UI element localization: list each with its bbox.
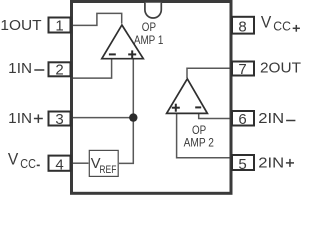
svg-text:OP: OP <box>142 22 156 34</box>
svg-text:OP: OP <box>192 125 206 137</box>
svg-text:1IN: 1IN <box>8 60 32 77</box>
svg-text:AMP 2: AMP 2 <box>184 137 214 149</box>
svg-text:V: V <box>8 150 18 168</box>
svg-text:REF: REF <box>99 164 116 176</box>
svg-text:8: 8 <box>238 18 246 35</box>
svg-text:2IN: 2IN <box>258 110 284 127</box>
svg-text:7: 7 <box>238 61 246 78</box>
svg-text:1: 1 <box>55 18 63 35</box>
svg-text:2IN: 2IN <box>258 154 284 171</box>
svg-text:2OUT: 2OUT <box>260 59 301 76</box>
svg-text:1IN: 1IN <box>8 110 32 127</box>
svg-text:6: 6 <box>238 111 246 128</box>
svg-text:AMP 1: AMP 1 <box>134 35 164 47</box>
svg-text:1OUT: 1OUT <box>0 17 41 34</box>
svg-text:4: 4 <box>55 156 63 173</box>
svg-text:3: 3 <box>55 111 63 128</box>
svg-text:CC: CC <box>20 156 36 171</box>
svg-text:V: V <box>261 14 271 32</box>
svg-text:2: 2 <box>55 62 63 79</box>
svg-text:5: 5 <box>238 156 246 173</box>
svg-text:CC: CC <box>273 19 291 34</box>
